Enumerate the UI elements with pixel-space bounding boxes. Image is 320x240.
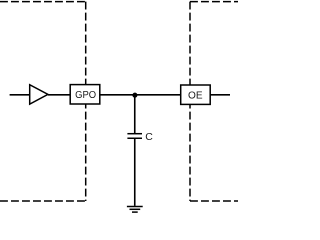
wire buffer to GPO bbox=[48, 94, 70, 96]
wire input bbox=[10, 94, 30, 96]
block GPO bbox=[70, 85, 100, 104]
svg-text:C: C bbox=[145, 131, 153, 143]
right device boundary (dashed box) top edge bbox=[190, 1, 238, 3]
junction node bbox=[132, 93, 137, 98]
left device boundary right edge bbox=[85, 2, 87, 201]
right device boundary bottom edge bbox=[190, 200, 238, 202]
left device boundary (dashed box) top edge bbox=[0, 1, 86, 3]
wire capacitor to ground bbox=[134, 139, 136, 206]
svg-text:OE: OE bbox=[188, 91, 203, 102]
right device boundary left edge bbox=[189, 2, 191, 201]
capacitor C bottom plate bbox=[127, 137, 142, 139]
left device boundary bottom edge bbox=[0, 200, 86, 202]
capacitor C top plate bbox=[127, 133, 142, 135]
block OE bbox=[181, 85, 211, 104]
wire OE output bbox=[210, 94, 230, 96]
ground bbox=[127, 206, 143, 212]
wire GPO to OE bbox=[100, 94, 181, 96]
svg-text:GPO: GPO bbox=[75, 90, 96, 101]
buffer driver bbox=[30, 85, 48, 104]
wire junction to capacitor bbox=[134, 95, 136, 133]
